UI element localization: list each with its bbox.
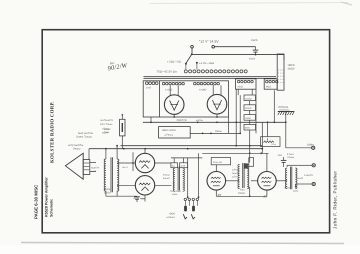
rectifier tube V2: [207, 85, 227, 117]
svg-text:A-ΩBZ: A-ΩBZ: [199, 88, 207, 91]
svg-text:1Ωπ 7πωω: 1Ωπ 7πωω: [100, 123, 113, 126]
wire: [144, 149, 146, 154]
wire: [215, 165, 217, 172]
ground: [278, 112, 294, 116]
svg-text:1ΩΩΩ: 1ΩΩΩ: [245, 97, 252, 100]
svg-text:L/ωππ: L/ωππ: [305, 174, 313, 177]
svg-text:1πωω: 1πωω: [163, 173, 170, 176]
wire: [228, 117, 230, 133]
svg-text:ω7π: ω7π: [232, 176, 237, 179]
svg-text:ω2ω: ω2ω: [293, 190, 298, 193]
svg-text:ω2πωπ: ω2πωπ: [167, 216, 176, 219]
capacitor C6: [278, 154, 287, 167]
label 12V 14.5V: [199, 40, 219, 44]
resistor box R1 90 ohm: [236, 79, 256, 89]
svg-text:πω7πωπ7π: πω7πωπ7π: [100, 119, 113, 122]
wire: [266, 153, 268, 171]
grid box: [211, 158, 230, 165]
transformer T1 core: [144, 76, 277, 78]
junction dots: [105, 121, 263, 149]
label -0.01: [167, 61, 181, 64]
svg-text:9ωω2: 9ωω2: [297, 177, 304, 180]
svg-text:9ΩΩ: 9ΩΩ: [238, 86, 243, 89]
label grid note: [122, 166, 128, 169]
fuse F1: [120, 114, 125, 149]
svg-text:+1.5V—0Ω1: +1.5V—0Ω1: [199, 62, 215, 65]
svg-text:3-8T: 3-8T: [146, 87, 152, 90]
rectifier unit box: [143, 81, 228, 117]
svg-text:4ΩΩV: 4ΩΩV: [288, 67, 295, 70]
potentiometer box: [261, 137, 280, 147]
wire: [285, 112, 287, 148]
tube V6 output: [258, 172, 277, 191]
svg-text:K5528 Power Amplifier: K5528 Power Amplifier: [45, 177, 49, 217]
border frame: [42, 30, 329, 233]
svg-text:ω7πω: ω7πω: [232, 169, 239, 172]
svg-text:π7ωω: π7ωω: [287, 156, 294, 159]
left margin label K5528 Power Amplifier: [45, 177, 49, 217]
svg-text:7ΩΩΩ: 7ΩΩΩ: [238, 192, 245, 195]
terminal L mid: [297, 164, 315, 167]
wire: [255, 89, 257, 133]
label ground note: [279, 106, 290, 111]
label +90V: [169, 212, 176, 215]
terminal L bottom: [297, 182, 315, 185]
svg-text:2ΩΩΩ: 2ΩΩΩ: [245, 107, 252, 110]
label 2A 72: [177, 119, 187, 122]
wire: [237, 89, 239, 95]
label 750-62.5V primary tap: [157, 70, 178, 73]
resistor stack R6: [244, 124, 256, 130]
wire: [89, 148, 262, 160]
right margin credit John F. Rider, Publisher: [333, 171, 338, 229]
wire: [155, 184, 172, 186]
svg-text:ωπ8: ωπ8: [180, 165, 185, 168]
wire: [192, 54, 284, 60]
wire: [273, 90, 275, 123]
label +1.5V-0.01: [199, 62, 215, 65]
plug pins: [183, 201, 197, 219]
wire: [150, 117, 152, 122]
svg-text:75Ω—62.5V Ωπ: 75Ω—62.5V Ωπ: [157, 70, 178, 73]
transformer T3 grid boxes: [171, 163, 188, 168]
wire: [251, 180, 258, 182]
switch S1 terminal: [191, 45, 194, 53]
svg-text:9ΩΩ: 9ΩΩ: [266, 86, 271, 89]
label tube type L5b: [263, 195, 268, 199]
svg-text:ω7πωω: ω7πωω: [165, 133, 174, 136]
label L-furn: [305, 174, 313, 177]
svg-text:KOLSTER RADIO CORP.: KOLSTER RADIO CORP.: [50, 101, 56, 163]
svg-text:1MFD 4ΩΩV: 1MFD 4ΩΩV: [162, 129, 177, 132]
svg-text:7Ω2: 7Ω2: [240, 189, 245, 192]
label tube type L7: [134, 197, 139, 200]
svg-text:“12 V” 14.5V: “12 V” 14.5V: [199, 40, 219, 44]
wire: [216, 190, 267, 197]
resistor stack R3: [244, 95, 256, 101]
label gen supply note: [68, 132, 93, 151]
wire: [155, 162, 171, 164]
wire: [143, 121, 286, 123]
svg-text:Schematic: Schematic: [50, 199, 54, 217]
svg-text:75Ωπ: 75Ωπ: [104, 188, 111, 191]
tube V3 push-pull: [135, 153, 154, 172]
transformer T3: [163, 167, 184, 196]
wire: [106, 146, 117, 159]
switch S1 terminal 2: [212, 45, 215, 48]
svg-text:6ωπ 6ω7πω: 6ωπ 6ω7πω: [78, 132, 93, 135]
wire: [132, 152, 134, 171]
transformer T5 interstage: [232, 163, 249, 195]
handwritten date mark: [107, 61, 128, 73]
svg-text:2ΩΔ72Ω: 2ΩΔ72Ω: [177, 119, 187, 122]
wire: [121, 145, 263, 147]
wire: [226, 180, 239, 182]
transformer T1 secondary A-0BZ: [194, 82, 220, 91]
svg-text:5ΩΩ: 5ΩΩ: [245, 127, 250, 130]
transformer T2 input: [91, 157, 119, 194]
svg-text:πωω2: πωω2: [232, 172, 239, 175]
svg-text:πω: πω: [172, 165, 176, 168]
tube V5 driver: [207, 172, 226, 191]
svg-text:ωπ2ω: ωπ2ω: [196, 119, 203, 122]
svg-text:John F. Rider, Publisher: John F. Rider, Publisher: [333, 171, 338, 229]
wire: [117, 162, 135, 164]
label tow fuse: [287, 153, 294, 159]
resistor stack R4: [244, 105, 256, 111]
label ballast rows: [100, 119, 113, 135]
label cone note: [104, 128, 110, 134]
label 9002: [297, 177, 304, 180]
svg-text:1Μπω: 1Μπω: [215, 130, 222, 133]
resistor R7: [249, 158, 254, 167]
label cap note: [215, 130, 222, 133]
capacitor C2 1MFD 400V: [277, 54, 295, 90]
label 2MFD: [167, 216, 176, 219]
svg-text:7ππ πωω: 7ππ πωω: [170, 190, 181, 193]
svg-text:2πωω: 2πωω: [73, 147, 80, 150]
svg-text:75ΩΩ: 75ΩΩ: [284, 186, 291, 189]
switch S1 blade: [185, 53, 193, 64]
plug contacts: [184, 198, 198, 200]
label 750 2W: [284, 186, 298, 192]
svg-text:2-ΩBZ: 2-ΩBZ: [165, 88, 173, 91]
svg-text:ωωπ: ωωπ: [91, 170, 97, 173]
wire: [117, 184, 135, 186]
capacitor C5: [134, 195, 145, 202]
svg-text:3ΩΩπ: 3ΩΩπ: [104, 192, 111, 195]
svg-text:PAGE 6-30 MISC: PAGE 6-30 MISC: [34, 185, 39, 219]
capacitor C1 1MFD 450V: [249, 39, 258, 60]
switch S1 contact: [186, 62, 198, 70]
svg-text:75ΩΩ: 75ΩΩ: [245, 117, 251, 120]
terminal 10MFD: [286, 143, 315, 149]
svg-text:± 0Ω1—0Ω: ± 0Ω1—0Ω: [167, 61, 181, 64]
left margin title KOLSTER RADIO CORP.: [50, 101, 56, 163]
resistor stack R5: [244, 115, 256, 121]
wire: [239, 95, 241, 133]
left margin page number PAGE 6-30 MISC: [34, 185, 39, 219]
svg-text:πω π: πω π: [122, 166, 128, 169]
resistor box R2 90 ohm: [264, 79, 278, 89]
svg-text:2ωπω 7ωωω: 2ωπω 7ωωω: [76, 136, 92, 139]
wire: [190, 133, 240, 135]
svg-text:1ππ: 1ππ: [278, 154, 283, 157]
wire: [198, 153, 200, 198]
wire: [294, 184, 296, 188]
wire: [287, 165, 297, 167]
svg-text:ωπω: ωπω: [172, 193, 178, 196]
svg-text:1πω ωπ: 1πω ωπ: [213, 161, 223, 164]
capacitor block C4 1MFD 400V: [159, 127, 191, 138]
left margin label Schematic: [50, 199, 54, 217]
horn speaker: [65, 153, 96, 179]
wire: [267, 121, 269, 136]
svg-text:π7ω: π7ω: [272, 143, 277, 146]
transformer T1 secondary 2-0BZ: [162, 82, 184, 91]
wire: [249, 187, 251, 196]
svg-text:4ωωV: 4ωωV: [163, 177, 170, 180]
svg-text:1MFD: 1MFD: [251, 39, 258, 42]
svg-text:ωπω: ωπω: [104, 128, 110, 131]
rectifier tube V1: [164, 85, 184, 117]
wire: [202, 152, 268, 154]
wire: [261, 122, 263, 153]
wire: [249, 101, 251, 163]
wire: [173, 116, 218, 118]
wire: [106, 191, 137, 197]
wire: [276, 180, 287, 182]
wire: [215, 46, 256, 48]
wire: [171, 158, 202, 163]
wire: [235, 89, 237, 146]
svg-text:+9ΩV: +9ΩV: [169, 212, 176, 215]
transformer T4 output: [285, 167, 297, 190]
wire: [187, 158, 189, 198]
svg-text:πωπ7π: πωπ7π: [91, 167, 100, 170]
transformer T1 primary winding: [184, 70, 247, 73]
svg-text:45ΩV: 45ΩV: [249, 58, 256, 61]
label wire note: [196, 119, 203, 122]
svg-text:7πω: 7πω: [104, 131, 109, 134]
tube V4 push-pull: [135, 176, 154, 195]
wire: [251, 89, 253, 95]
label tube type L5: [217, 193, 222, 197]
